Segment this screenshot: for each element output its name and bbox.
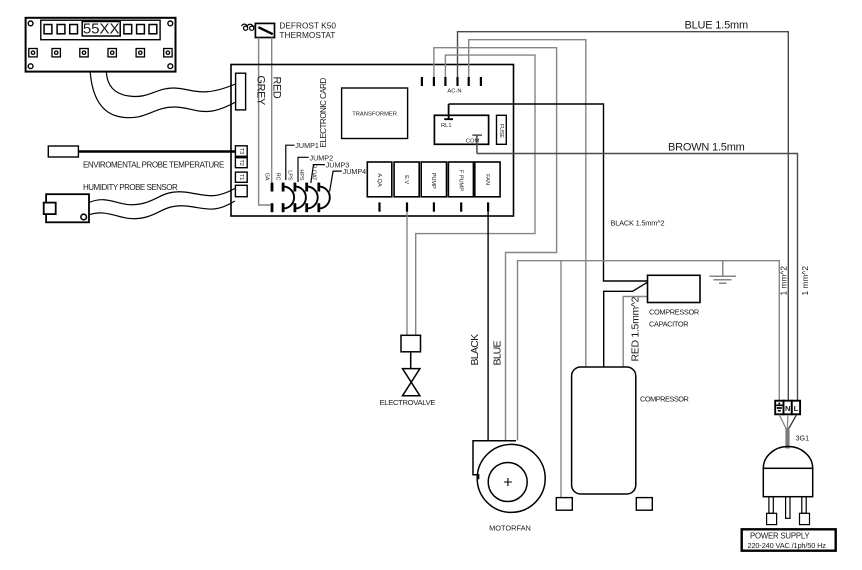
output box PUMP [421, 162, 446, 197]
svg-text:BLACK: BLACK [469, 334, 481, 366]
power supply box [742, 529, 836, 550]
svg-text:RL1: RL1 [441, 123, 452, 129]
electrovalve valve symbol [403, 369, 420, 396]
panel ribbon wire lower [90, 72, 235, 118]
wire grey thermostat to GA [259, 38, 271, 206]
display segment squares left [44, 25, 77, 34]
electrovalve coil box [401, 335, 421, 352]
svg-text:HPS: HPS [298, 169, 304, 180]
svg-text:ENVIROMENTAL PROBE TEMPERATURE: ENVIROMENTAL PROBE TEMPERATURE [83, 161, 224, 170]
AC-N pin 3 [444, 77, 446, 86]
svg-text:JUMP4: JUMP4 [343, 167, 367, 176]
wire blue from AC-N to plug N [458, 32, 789, 401]
plug body [763, 468, 812, 496]
svg-text:THERMOSTAT: THERMOSTAT [279, 30, 335, 40]
wire brown COM to plug L [477, 154, 798, 402]
svg-text:RED: RED [270, 77, 282, 99]
electrovalve stem [410, 352, 412, 369]
display panel outer body [26, 18, 176, 72]
svg-text:BLACK 1.5mm^2: BLACK 1.5mm^2 [611, 219, 665, 228]
motorfan scroll [473, 441, 516, 480]
svg-text:220-240 VAC /1ph/50 Hz: 220-240 VAC /1ph/50 Hz [748, 541, 827, 550]
svg-text:AC-N: AC-N [447, 89, 461, 95]
plug dome [763, 447, 812, 469]
humidity wire lower [89, 201, 235, 219]
compressor capacitor box [648, 275, 701, 302]
svg-text:LPS: LPS [286, 170, 292, 181]
AC-N pin 4 [456, 77, 458, 86]
svg-text:T1: T1 [238, 174, 244, 180]
output box A.QA [367, 162, 392, 197]
svg-text:CAPACITOR: CAPACITOR [649, 320, 688, 329]
svg-text:1 mm^2: 1 mm^2 [779, 266, 789, 296]
svg-text:POWER SUPPLY: POWER SUPPLY [750, 532, 810, 541]
output pin E.V [406, 202, 408, 211]
environmental probe [48, 146, 78, 157]
wire RL1 to capacitor [449, 104, 648, 281]
svg-text:COMPRESSOR: COMPRESSOR [649, 308, 699, 317]
wire EV pin to electrovalve [406, 212, 408, 335]
humidity wire upper [89, 189, 235, 205]
svg-text:COM: COM [466, 139, 480, 145]
AC-N pin 1 [421, 77, 423, 86]
panel ribbon wire upper [106, 72, 235, 97]
svg-text:3G1: 3G1 [796, 434, 810, 443]
jumper header pins GA [271, 183, 274, 192]
AC-N pin 5 [468, 77, 470, 86]
svg-text:L: L [794, 404, 799, 413]
output box E.V [394, 162, 419, 197]
electronic card board [231, 65, 514, 217]
svg-text:ELECTRONIC CARD: ELECTRONIC CARD [319, 78, 328, 148]
wire black FAN pin to motorfan [487, 212, 489, 441]
terminal block ground cell [775, 401, 783, 415]
panel connector on card [236, 73, 246, 110]
output box FAN [475, 162, 500, 197]
display segment squares right [124, 25, 157, 34]
55XX digit box [82, 22, 120, 37]
svg-text:F PUMP: F PUMP [457, 170, 463, 191]
svg-text:MOTORFAN: MOTORFAN [489, 524, 531, 533]
svg-text:ELECTROVALVE: ELECTROVALVE [380, 398, 436, 407]
wire red thermostat to GA [271, 38, 273, 183]
wire grey AC-N to electrovalve [416, 55, 535, 335]
output pin F PUMP [460, 202, 462, 211]
jumper FLOAT arc [319, 187, 330, 209]
ground wire run [518, 261, 780, 441]
plug prong right [802, 497, 806, 514]
svg-text:GA: GA [264, 173, 270, 181]
panel corner screws [28, 21, 173, 69]
wire grey AC-N to motorfan blue [434, 48, 557, 441]
jumper header pins FLOAT [317, 183, 320, 192]
relay RL1 box [434, 115, 488, 144]
svg-text:T2: T2 [238, 160, 244, 166]
svg-text:DEFROST K50: DEFROST K50 [279, 21, 336, 31]
jumper RC arc [283, 187, 294, 209]
svg-text:PUMP: PUMP [430, 173, 436, 189]
wire grey AC-N to compressor [469, 40, 586, 367]
panel buttons [29, 49, 172, 57]
terminal block N cell [784, 401, 792, 415]
defrost thermostat coil sensor [242, 24, 256, 30]
fuse box [497, 115, 507, 144]
svg-text:FAN: FAN [484, 174, 490, 185]
svg-text:T3: T3 [238, 148, 244, 154]
svg-text:COMPRESSOR: COMPRESSOR [640, 395, 689, 404]
AC-N pin 6 [480, 77, 482, 86]
svg-text:RC: RC [275, 173, 281, 181]
jumper header pins HPS [305, 183, 308, 192]
svg-text:BROWN 1.5mm: BROWN 1.5mm [668, 142, 745, 154]
thermostat contact blade [258, 27, 272, 34]
thermostat K50 body [255, 23, 274, 37]
cable 3G1 [785, 428, 789, 449]
ground branch to compressor frame [560, 261, 562, 498]
output box F PUMP [448, 162, 473, 197]
svg-text:55XX: 55XX [83, 21, 120, 38]
probe wire to T3 [78, 150, 235, 153]
terminal T3 [235, 146, 247, 157]
svg-text:1 mm^2: 1 mm^2 [800, 266, 810, 296]
svg-text:N: N [785, 404, 790, 413]
svg-text:GREY: GREY [255, 76, 267, 105]
wire capacitor to compressor black [604, 282, 648, 367]
display window [41, 20, 160, 40]
output pin A.QA [378, 202, 380, 211]
jumper LPS arc [295, 187, 306, 209]
terminal block L cell [792, 401, 800, 415]
compressor foot left [556, 498, 572, 511]
compressor body [572, 367, 636, 494]
COM pin [472, 135, 482, 153]
AC-N pin 2 [433, 77, 435, 86]
svg-text:A.QA: A.QA [376, 173, 382, 187]
jumper header pins RC [282, 183, 285, 192]
svg-text:FUSE: FUSE [498, 124, 504, 138]
terminal blank [235, 185, 247, 196]
output pin PUMP [433, 202, 435, 211]
plug prong left [769, 497, 773, 514]
terminal T2 [235, 158, 247, 168]
wire capacitor to compressor red [623, 297, 647, 368]
output pin FAN [487, 202, 489, 211]
jumper header pins LPS [294, 183, 297, 192]
ground symbol [710, 261, 737, 284]
plug prong center [786, 497, 790, 519]
svg-text:JUMP1: JUMP1 [295, 141, 319, 150]
humidity sensor plug [44, 203, 56, 215]
compressor foot right [636, 498, 652, 511]
svg-text:BLUE: BLUE [491, 340, 503, 365]
terminal T1 [235, 172, 247, 182]
svg-text:BLUE 1.5mm: BLUE 1.5mm [685, 20, 748, 32]
motorfan housing [477, 444, 545, 512]
motorfan hub [488, 463, 527, 502]
svg-text:RED 1.5mm^2: RED 1.5mm^2 [630, 296, 642, 361]
humidity sensor led [81, 214, 87, 220]
svg-text:TRANSFORMER: TRANSFORMER [352, 112, 397, 118]
transformer box [342, 88, 408, 139]
RL1 top pin [444, 104, 453, 119]
jumper HPS arc [307, 187, 318, 209]
svg-text:HUMIDITY PROBE SENSOR: HUMIDITY PROBE SENSOR [83, 183, 178, 192]
svg-text:E.V: E.V [403, 175, 409, 184]
humidity sensor body [46, 194, 89, 222]
converging wires to cable [779, 415, 786, 429]
